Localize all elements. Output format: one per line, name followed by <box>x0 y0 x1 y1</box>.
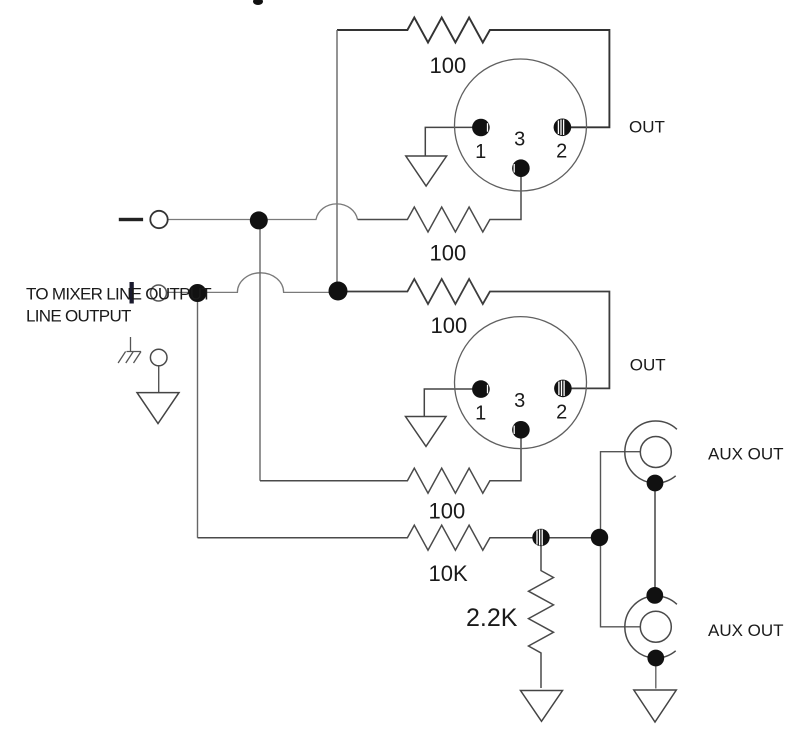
svg-text:1: 1 <box>475 402 486 424</box>
svg-text:100: 100 <box>431 313 468 338</box>
svg-text:2.2K: 2.2K <box>466 604 518 632</box>
svg-text:3: 3 <box>514 390 525 412</box>
svg-text:AUX OUT: AUX OUT <box>708 621 784 640</box>
svg-text:100: 100 <box>429 499 466 524</box>
svg-text:10K: 10K <box>429 561 468 586</box>
svg-text:1: 1 <box>475 141 486 163</box>
svg-text:LINE OUTPUT: LINE OUTPUT <box>26 307 131 326</box>
svg-text:100: 100 <box>430 241 467 266</box>
svg-text:TO MIXER LINE OUTPUT: TO MIXER LINE OUTPUT <box>26 285 211 304</box>
svg-text:OUT: OUT <box>629 117 665 136</box>
svg-text:AUX OUT: AUX OUT <box>708 445 784 464</box>
svg-text:2: 2 <box>556 141 567 163</box>
svg-text:100: 100 <box>430 53 467 78</box>
svg-text:2: 2 <box>556 401 567 423</box>
svg-text:OUT: OUT <box>630 355 666 374</box>
svg-text:3: 3 <box>514 129 525 151</box>
